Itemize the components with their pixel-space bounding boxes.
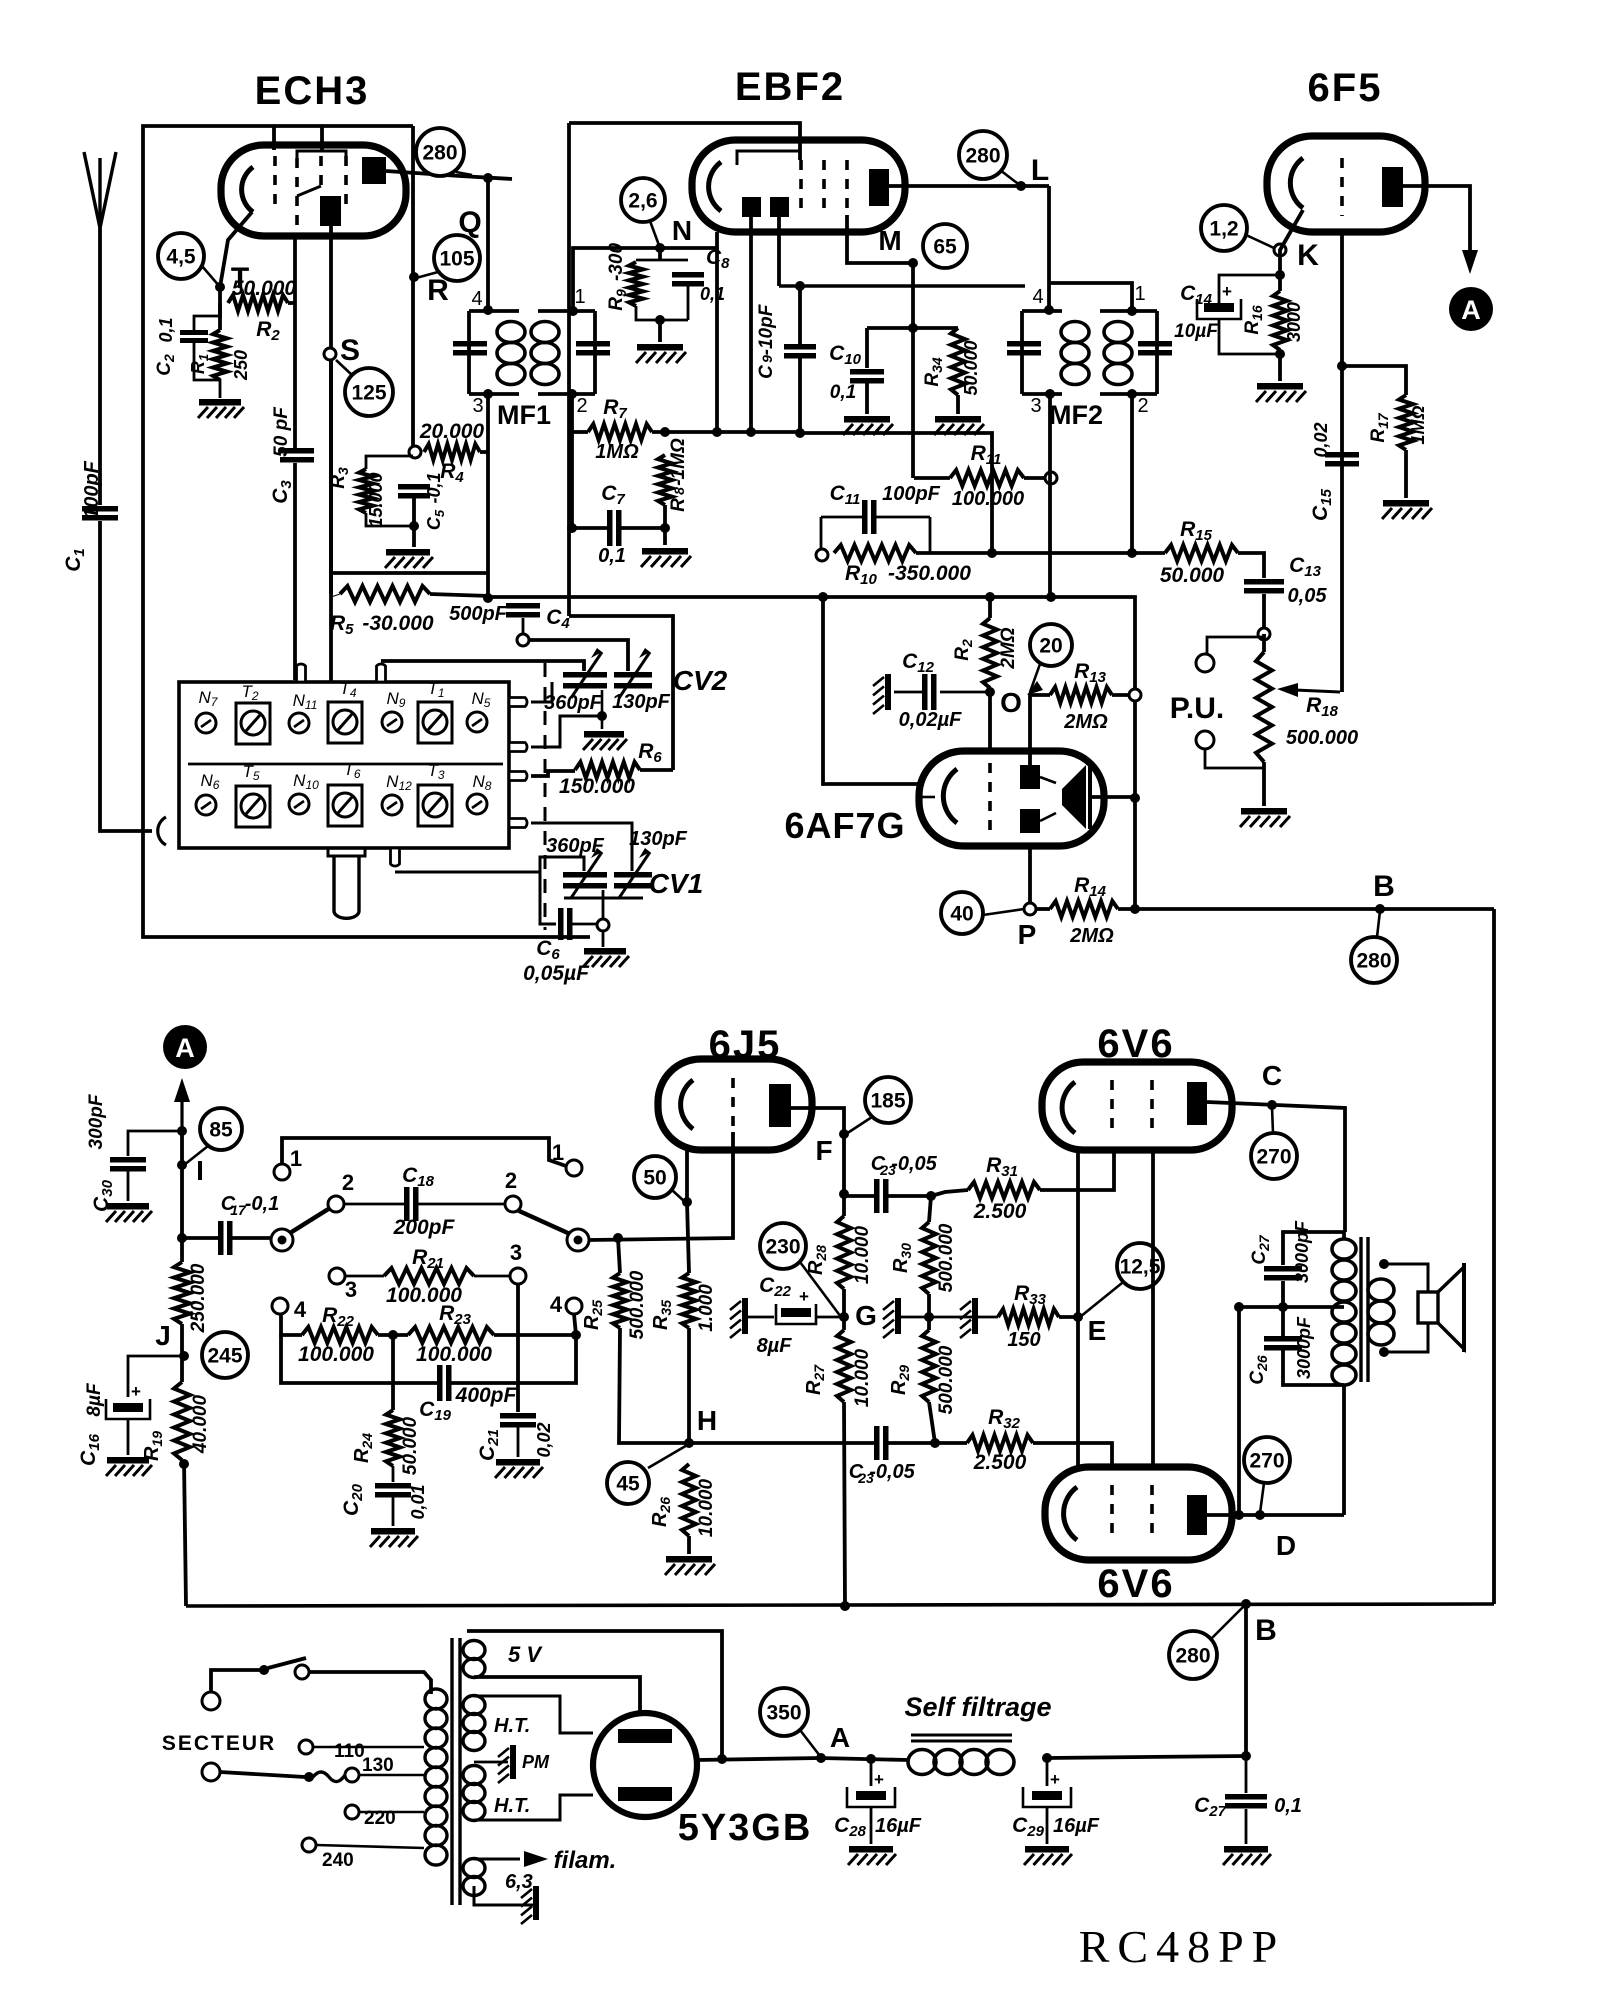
label R11 (971, 442, 1002, 468)
wire C6 to ground (572, 924, 603, 947)
wire C27 branch (1283, 1232, 1344, 1265)
label pin1 MF2 (1134, 283, 1145, 305)
trimmer T3 (418, 761, 452, 826)
wire E rail (1076, 1150, 1080, 1467)
resistor R13 (1050, 687, 1112, 703)
node L (1016, 181, 1026, 191)
label M (878, 225, 901, 256)
label pin3 MF2 (1030, 395, 1041, 417)
label 3a (345, 1277, 357, 1302)
svg-text:ECH3: ECH3 (255, 69, 370, 113)
wire screen tap (1239, 1305, 1344, 1309)
wire y596 bus right (569, 616, 673, 770)
svg-text:2: 2 (1137, 395, 1148, 417)
wire R23 right (494, 1333, 576, 1337)
node R27 bus (840, 1601, 850, 1611)
wire AVC bus (331, 594, 1051, 597)
wire wiper to 6F5 grid (1340, 691, 1344, 692)
label pin2 MF2 (1137, 395, 1148, 417)
wire R26 ground lead (687, 1536, 691, 1554)
svg-text:150.000: 150.000 (559, 775, 635, 798)
svg-text:130pF: 130pF (629, 828, 688, 850)
label 500pF (449, 603, 508, 625)
wire B to C27f (1244, 1604, 1248, 1756)
wire R3 C5 bottom (366, 498, 414, 547)
tube 6F5 envelope (1267, 136, 1425, 232)
label R26 (649, 1497, 673, 1527)
tube 6AF7G cathode (943, 769, 957, 823)
wire PM tap (474, 1761, 508, 1764)
node tap select (304, 1772, 314, 1782)
ground C5 (385, 549, 433, 568)
svg-text:5Y3GB: 5Y3GB (678, 1807, 813, 1849)
ground C10 (843, 416, 893, 435)
wire MF2 pin2 down (1130, 394, 1134, 553)
trimmer N11 (289, 691, 317, 733)
trimmer T4 (328, 679, 362, 743)
tube ECH3 grid dashes (275, 156, 346, 225)
node bus R4 (483, 593, 493, 603)
svg-text:K: K (1297, 239, 1319, 272)
switch box pin bottom (391, 848, 400, 866)
wire R12 to tube (988, 688, 992, 751)
svg-text:B: B (1255, 1614, 1277, 1647)
tube ECH3 cathode (242, 167, 253, 212)
winding HT upper (463, 1696, 485, 1751)
node C7 R8 (660, 523, 670, 533)
svg-text:6,3: 6,3 (505, 1871, 533, 1893)
trimmer N8 (467, 772, 492, 814)
wire H to C23 lower (689, 1441, 874, 1445)
wire 5Y3 filament top (467, 1631, 722, 1759)
wire 6F5 cathode to K (1280, 210, 1303, 291)
node M R34 line (908, 323, 918, 333)
svg-text:50.000: 50.000 (400, 1417, 421, 1476)
wire plug bottom to tap (220, 1772, 305, 1777)
node MF1 pin3 (483, 389, 493, 399)
wire R10 to R15 (916, 551, 1165, 555)
label C12 (902, 650, 935, 676)
node speaker bottom (1379, 1347, 1389, 1357)
tube 6AF7G electrode 1 (1020, 765, 1040, 789)
node Q junction (483, 173, 493, 183)
trimmer T6 (328, 760, 362, 826)
switch blade S1a (290, 1208, 330, 1233)
svg-text:PM: PM (522, 1752, 550, 1772)
wire 4,5 to T (202, 266, 220, 287)
label 1.000 (696, 1284, 717, 1332)
label Q (458, 206, 481, 239)
svg-text:500.000: 500.000 (627, 1270, 648, 1339)
svg-text:E: E (1088, 1315, 1107, 1346)
wire screen rail 6V6 (1151, 1150, 1155, 1467)
wire R2 right (288, 301, 295, 305)
trimmer N7 (196, 688, 219, 733)
label 0,1 C27 (1274, 1795, 1302, 1817)
node MF2 pin1 (1127, 306, 1137, 316)
svg-text:3000pF: 3000pF (1294, 1316, 1314, 1379)
svg-text:3000: 3000 (1284, 302, 1304, 342)
wire C30 ground lead (127, 1171, 130, 1201)
label 2.500 R31 (973, 1200, 1027, 1223)
wire C26 leads (1283, 1307, 1344, 1385)
tube label 6J5 (709, 1023, 782, 1067)
wire 270 to D (1260, 1483, 1264, 1513)
resistor R3 (359, 469, 373, 513)
svg-text:200pF: 200pF (393, 1216, 456, 1239)
label MF1 (497, 400, 551, 430)
svg-text:C: C (756, 365, 777, 379)
trimmer N6 (196, 771, 220, 815)
capacitor C18 200pF (404, 1187, 419, 1221)
label R23 (439, 1302, 472, 1328)
tube 6J5 anode (769, 1084, 791, 1127)
wire target to R13 node (1090, 795, 1135, 799)
variable capacitor CV1 360pF (563, 848, 607, 898)
wire S to 125 (336, 360, 352, 375)
wire EBF2 cathode down (715, 232, 719, 432)
label T (231, 262, 249, 295)
label L (1031, 154, 1049, 187)
circled 230 (760, 1223, 806, 1269)
tube 6J5 grid dashes (731, 1078, 735, 1132)
label HT upper (494, 1715, 530, 1737)
svg-text:5 V: 5 V (508, 1642, 543, 1667)
circled 1,2 (1201, 205, 1247, 251)
circled 125 (345, 368, 393, 416)
capacitor C16 8uF (106, 1382, 150, 1419)
node G (839, 1312, 849, 1322)
svg-text:-0,1: -0,1 (424, 472, 444, 503)
circled 270 top (1251, 1133, 1297, 1179)
wire C21 ground lead (517, 1427, 520, 1457)
svg-text:10.000: 10.000 (852, 1349, 873, 1408)
svg-text:2: 2 (505, 1168, 517, 1193)
node 5Y3 filament A (717, 1754, 727, 1764)
svg-text:2MΩ: 2MΩ (1063, 711, 1108, 733)
wire EBF2 top cap bus (569, 123, 800, 160)
label 1b (552, 1140, 564, 1165)
svg-text:-10pF: -10pF (756, 303, 777, 355)
contact 3b (510, 1268, 526, 1284)
svg-text:A: A (830, 1722, 850, 1753)
label S (340, 334, 360, 367)
svg-text:270: 270 (1256, 1146, 1291, 1169)
svg-text:4: 4 (550, 1292, 563, 1317)
svg-text:4,5: 4,5 (166, 246, 196, 269)
wire 40 to P (983, 909, 1024, 915)
wire C29 ground lead (1046, 1807, 1049, 1844)
label R35 (650, 1300, 674, 1330)
node K net top (1275, 270, 1285, 280)
svg-text:RC48PP: RC48PP (1079, 1921, 1286, 1972)
label 100.000 R21 (386, 1284, 462, 1307)
tube EBF2 anode (869, 169, 889, 206)
wire to R17 (1342, 366, 1406, 395)
node D junction (1255, 1510, 1265, 1520)
wire R30 bottom (927, 1294, 931, 1330)
wire 6F5 grid down (1340, 232, 1344, 692)
node C4 bottom (517, 634, 529, 646)
label C9-10pF (756, 303, 777, 379)
transformer power primary (425, 1689, 447, 1865)
label R7 1M (595, 441, 639, 463)
svg-text:4: 4 (471, 288, 482, 310)
node MF2 pin3 (1045, 389, 1055, 399)
label C10 0,1 (830, 382, 856, 403)
svg-text:280: 280 (422, 142, 457, 165)
resistor R26 (682, 1464, 696, 1536)
svg-text:2: 2 (576, 395, 587, 417)
label 100.000 R22 (298, 1343, 374, 1366)
label Self filtrage (904, 1692, 1051, 1722)
svg-text:N: N (672, 215, 692, 246)
pickup P.U. terminal 2 (1196, 731, 1214, 749)
label R27 (803, 1364, 827, 1395)
wire HT bottom to plate2 (474, 1795, 593, 1820)
node MF1 pin1 (568, 306, 578, 316)
wire C10 R34 line (867, 326, 958, 330)
antenna (84, 152, 116, 228)
node tap C27 (1278, 1302, 1288, 1312)
node P (1024, 903, 1036, 915)
wire E rail screen link (1237, 1307, 1241, 1515)
label I (196, 1155, 204, 1186)
tube 6F5 cathode (1290, 158, 1303, 208)
tap 110 (299, 1740, 365, 1762)
svg-text:16µF: 16µF (1053, 1815, 1100, 1837)
node speaker top (1379, 1259, 1389, 1269)
tube 6AF7G electrode leads (1040, 777, 1056, 821)
label E (1088, 1315, 1107, 1346)
transformer MF1 primary frame (469, 311, 519, 394)
tube 6V6 top envelope (1042, 1062, 1232, 1150)
resistor R2 (228, 295, 288, 311)
wire grid EBF2 to M (847, 215, 913, 263)
svg-text:0,1: 0,1 (1274, 1795, 1302, 1817)
wire C30 branch (128, 1131, 182, 1156)
svg-text:500.000: 500.000 (1286, 727, 1358, 749)
label 250 (231, 350, 251, 381)
tube 5Y3GB plate 1 (618, 1729, 672, 1743)
wire tap240 (316, 1845, 424, 1848)
node screen link D (1234, 1510, 1244, 1520)
wire box pin right4 to CV1 130 (531, 823, 632, 871)
label R25 (581, 1300, 605, 1330)
node R13 right (1129, 689, 1141, 701)
wire box pin bottom to C6 (395, 872, 556, 924)
wire S branch to bus (331, 571, 488, 575)
wire 280 to B bottom (1212, 1606, 1244, 1638)
tube 6AF7G grid dashes (988, 763, 992, 834)
tube label 6F5 (1308, 66, 1383, 110)
svg-text:125: 125 (351, 382, 386, 405)
tube 6AF7G envelope (919, 751, 1104, 846)
wire R9 C8 top (636, 248, 688, 260)
svg-text:100pF: 100pF (882, 483, 941, 505)
wire R3 C5 top (366, 456, 413, 469)
circled 270 bottom (1244, 1437, 1290, 1483)
svg-text:+: + (799, 1287, 809, 1306)
wire left rail to bottom bus (182, 1324, 186, 1606)
ground C28 (848, 1846, 896, 1865)
node R10 left (816, 549, 828, 561)
wire C27f ground lead (1245, 1809, 1248, 1844)
wire wall to C22 (748, 1316, 774, 1319)
resistor R22 (302, 1327, 378, 1343)
wire C17 left lead (182, 1236, 218, 1240)
resistor R31 (968, 1182, 1040, 1198)
tube label 6AF7G (784, 805, 905, 846)
node R12 bus (985, 592, 995, 602)
svg-text:+: + (874, 1770, 884, 1789)
label 360pF CV1 (546, 835, 605, 857)
capacitor C15 (1325, 452, 1359, 467)
svg-text:3000pF: 3000pF (1292, 1220, 1312, 1283)
transformer power core (452, 1638, 460, 1905)
svg-text:2.500: 2.500 (973, 1451, 1027, 1474)
node E (1073, 1312, 1083, 1322)
wire R11 left (914, 476, 950, 480)
tube EBF2 internal top lead (737, 151, 800, 165)
label C22 (759, 1274, 792, 1300)
tube EBF2 diode plate 1 (742, 197, 761, 217)
node C13 bottom (1258, 628, 1270, 640)
label 10.000 R27 (852, 1349, 873, 1408)
label 50.000 R24 (400, 1417, 421, 1476)
variable capacitor CV1 130pF (614, 848, 652, 898)
speaker cone (1438, 1263, 1464, 1352)
node N (655, 243, 665, 253)
resistor R7 (588, 424, 652, 440)
svg-text:1: 1 (552, 1140, 564, 1165)
label 15.000 (366, 472, 386, 527)
resistor R29 (922, 1330, 936, 1402)
svg-text:J: J (155, 1320, 171, 1351)
label C7 (601, 482, 625, 508)
capacitor C13 (1244, 579, 1284, 594)
label 2a (342, 1170, 354, 1195)
label C5-0,1 (424, 472, 447, 530)
svg-text:R: R (668, 498, 689, 512)
circled 280 top B (1351, 937, 1397, 983)
tube 6AF7G electrode 2 (1020, 809, 1040, 833)
label C14 (1180, 282, 1213, 308)
label G (855, 1300, 877, 1331)
svg-text:-1MΩ: -1MΩ (668, 438, 689, 486)
wire 5Y3 filament 2 (474, 1677, 640, 1714)
tube 5Y3GB plate 2 (618, 1787, 672, 1801)
label 3000 (1284, 302, 1304, 342)
label R32 (988, 1406, 1021, 1432)
svg-text:0,05µF: 0,05µF (523, 962, 590, 985)
svg-text:2: 2 (342, 1170, 354, 1195)
label 500.000 R29 (936, 1345, 957, 1414)
svg-text:240: 240 (322, 1850, 354, 1871)
label 10.000 R26 (696, 1479, 717, 1538)
circled 2,6 (621, 178, 665, 222)
label R4 (440, 460, 464, 486)
svg-text:500pF: 500pF (449, 603, 508, 625)
label 500.000 R25 (627, 1270, 648, 1339)
label R19 (141, 1431, 165, 1461)
svg-text:A: A (1461, 295, 1481, 325)
svg-text:130: 130 (362, 1755, 394, 1776)
resistor R15 (1165, 545, 1238, 561)
svg-text:C: C (1262, 1060, 1282, 1091)
circled 185 (865, 1077, 911, 1123)
svg-text:8µF: 8µF (84, 1382, 105, 1417)
node F (839, 1129, 849, 1139)
speaker coil (1418, 1292, 1438, 1323)
label 500.000 R30 (936, 1223, 957, 1292)
label C27 3000pF (1249, 1220, 1312, 1283)
svg-text:250.000: 250.000 (188, 1263, 209, 1333)
chassis wall G right (960, 1298, 978, 1338)
node R19 bottom (179, 1459, 189, 1469)
variable capacitor CV2 130pF (614, 648, 652, 698)
wire filament arrow (474, 1851, 548, 1867)
wire EBF2 anode to L (889, 184, 1049, 188)
label C29 (1012, 1814, 1045, 1840)
label 10uF (1174, 321, 1219, 342)
node 6J5 cathode (682, 1197, 692, 1207)
wire shield box outline (143, 126, 590, 937)
wire 280 to B top (1377, 911, 1380, 937)
label C30 (90, 1179, 116, 1212)
variable capacitor CV2 360pF (563, 648, 607, 698)
capacitor C1 100pF (82, 506, 118, 521)
wire R15 right to C13 (1238, 553, 1264, 578)
circled 45 (607, 1462, 649, 1504)
svg-text:-300: -300 (606, 243, 627, 281)
node B C27f (1241, 1751, 1251, 1761)
svg-text:-0,05: -0,05 (891, 1153, 937, 1175)
capacitor C11 100pF (862, 500, 877, 534)
ground R26 (665, 1556, 715, 1575)
potentiometer R18 (1256, 652, 1272, 762)
label R24 (351, 1433, 375, 1463)
label pin4 MF1 (471, 288, 482, 310)
ground R8 (641, 548, 691, 567)
wire 5Y3 cathode right (697, 1758, 820, 1760)
tube 6V6 top grid dashes (1112, 1080, 1152, 1136)
ground R17 (1382, 500, 1432, 519)
wire 12,5 to E (1080, 1283, 1122, 1317)
band switch box (179, 682, 509, 848)
label 100pF (81, 460, 103, 519)
wire 45 to H (648, 1444, 689, 1468)
resistor R4 (424, 444, 480, 460)
wire R28 to G (842, 1289, 846, 1330)
svg-text:EBF2: EBF2 (735, 65, 845, 109)
label 300pF (86, 1093, 107, 1149)
label R33 (1014, 1282, 1047, 1308)
wire R35 to H (687, 1328, 691, 1443)
wire 280 to L (1000, 170, 1021, 186)
svg-text:L: L (1031, 154, 1049, 187)
label RC48PP (1079, 1921, 1286, 1972)
wire C12 line (894, 691, 990, 694)
wire C23 upper leads (846, 1194, 931, 1198)
svg-text:85: 85 (209, 1119, 233, 1142)
wire MF2 pin3 down (1048, 394, 1052, 597)
label 2.500 R32 (973, 1451, 1027, 1474)
node cathode R7 line (712, 427, 722, 437)
svg-text:40: 40 (950, 903, 973, 926)
wire R30 top (929, 1196, 931, 1222)
node choke left (866, 1754, 876, 1764)
